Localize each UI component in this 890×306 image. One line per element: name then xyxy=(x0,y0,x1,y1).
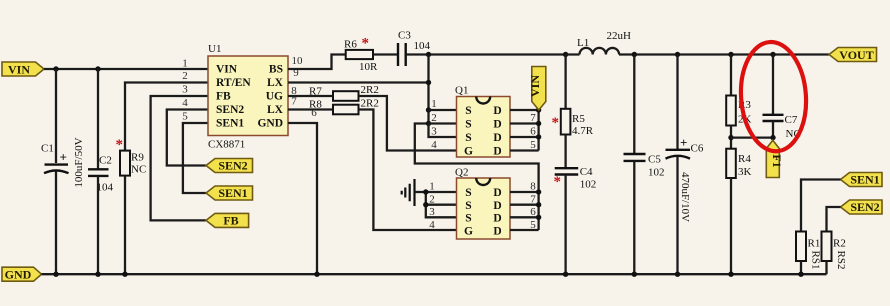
resistor R9 xyxy=(116,137,147,176)
svg-text:R1: R1 xyxy=(808,238,821,250)
node Q1 D pin8 xyxy=(536,107,541,112)
svg-text:5: 5 xyxy=(530,139,536,151)
power flag F1 xyxy=(766,140,784,177)
node VIN-C1 xyxy=(53,66,58,71)
wire Q1 pin3 stub xyxy=(429,124,457,138)
svg-text:C3: C3 xyxy=(398,30,411,42)
svg-text:C2: C2 xyxy=(99,155,112,167)
svg-text:SEN1: SEN1 xyxy=(218,186,247,200)
node R3-R4-C7 xyxy=(728,135,733,140)
svg-text:1: 1 xyxy=(429,181,435,193)
svg-text:D: D xyxy=(493,132,501,144)
svg-text:S: S xyxy=(465,132,471,144)
svg-text:LX: LX xyxy=(267,77,284,89)
svg-text:R2: R2 xyxy=(833,238,846,250)
wire LX node to R5 xyxy=(564,55,566,109)
wire U1 pin2 to R9 xyxy=(125,83,208,151)
wire R3 to R4 junction xyxy=(730,126,732,149)
wire R7 to Q1 gate xyxy=(359,96,457,151)
wire U1 pin9 LX xyxy=(288,81,429,83)
wire C1 top lead xyxy=(55,69,57,163)
svg-text:2R2: 2R2 xyxy=(361,98,379,110)
port SEN2 xyxy=(206,159,253,173)
capacitor C6 xyxy=(666,135,704,159)
svg-text:R6: R6 xyxy=(344,39,357,51)
svg-text:RT/EN: RT/EN xyxy=(216,77,251,89)
svg-text:SEN1: SEN1 xyxy=(216,118,244,130)
svg-text:D: D xyxy=(493,213,501,225)
svg-text:*: * xyxy=(362,36,370,52)
svg-text:SEN2: SEN2 xyxy=(216,104,244,116)
wire U1 pin7 to R8 xyxy=(288,108,333,110)
svg-text:R4: R4 xyxy=(738,153,751,165)
node VOUT-R3 xyxy=(728,52,733,57)
op-amp U1 CX8871 xyxy=(208,43,288,151)
wire C2 top lead xyxy=(97,69,99,169)
svg-text:VIN: VIN xyxy=(528,75,542,97)
svg-text:+: + xyxy=(60,150,67,165)
node VIN-C2 xyxy=(95,66,100,71)
node Q2 D pin7 xyxy=(536,202,541,207)
svg-text:CX8871: CX8871 xyxy=(208,139,245,151)
wire R1 bottom lead xyxy=(800,261,802,274)
port VOUT xyxy=(829,48,877,62)
resistor R2 xyxy=(822,232,848,270)
svg-text:3: 3 xyxy=(429,206,435,218)
svg-text:7: 7 xyxy=(291,96,297,108)
node VOUT-C6 xyxy=(675,52,680,57)
svg-text:U1: U1 xyxy=(208,43,221,55)
svg-text:6: 6 xyxy=(530,206,536,218)
wire C7 top lead xyxy=(772,55,774,115)
wire GND rail xyxy=(42,273,827,275)
wire ground to Q2 sources xyxy=(415,191,426,193)
svg-text:7: 7 xyxy=(530,112,536,124)
svg-text:5: 5 xyxy=(530,219,536,231)
wire Q1 pin1 stub xyxy=(429,109,457,111)
wire Q1 pin2 stub xyxy=(429,122,457,124)
svg-text:3K: 3K xyxy=(738,166,752,178)
svg-text:22uH: 22uH xyxy=(607,30,632,42)
wire U1 pin3 to FB flag xyxy=(151,96,208,220)
wire VOUT rail xyxy=(619,53,829,55)
node GND-U1pin6 xyxy=(314,272,319,277)
svg-text:3: 3 xyxy=(182,84,188,96)
svg-text:470uF/10V: 470uF/10V xyxy=(679,172,691,222)
node Q1 S pin1 xyxy=(426,107,431,112)
svg-text:GND: GND xyxy=(5,268,32,282)
node LX-L1-R5 xyxy=(563,52,568,57)
capacitor C4 xyxy=(554,166,597,191)
svg-text:G: G xyxy=(464,146,473,158)
svg-text:S: S xyxy=(465,200,471,212)
wire U1 pin8 to R7 xyxy=(288,95,333,97)
svg-text:NC: NC xyxy=(131,164,146,176)
svg-text:D: D xyxy=(493,146,501,158)
wire R3 top lead xyxy=(730,55,732,96)
svg-text:S: S xyxy=(465,105,471,117)
svg-text:4.7R: 4.7R xyxy=(572,125,594,137)
svg-text:G: G xyxy=(464,225,473,237)
svg-text:10R: 10R xyxy=(359,61,378,73)
svg-text:1: 1 xyxy=(182,58,188,70)
transistor Q2 xyxy=(455,167,510,240)
wire LX vertical bus xyxy=(427,55,429,124)
wire Q1 source bus jog to Q2 drain bus xyxy=(415,124,539,193)
wire SEN1 to R1 xyxy=(801,180,841,232)
node GND-C2 xyxy=(95,272,100,277)
wire Q2 source bus xyxy=(426,192,457,217)
svg-text:SEN2: SEN2 xyxy=(218,159,247,173)
svg-text:+: + xyxy=(680,135,687,150)
svg-text:Q1: Q1 xyxy=(455,85,468,97)
svg-text:UG: UG xyxy=(266,91,283,103)
wire R2 bottom lead xyxy=(825,261,827,274)
port VIN xyxy=(2,62,44,76)
svg-text:Q2: Q2 xyxy=(455,167,468,179)
capacitor C5 xyxy=(624,154,665,179)
svg-text:2R2: 2R2 xyxy=(361,84,379,96)
svg-text:D: D xyxy=(493,187,501,199)
svg-text:FB: FB xyxy=(223,214,238,228)
svg-text:4: 4 xyxy=(431,139,437,151)
resistor R3 xyxy=(726,96,751,126)
svg-text:6: 6 xyxy=(530,126,536,138)
wire C7 bottom lead xyxy=(772,121,774,138)
capacitor C3 xyxy=(398,30,431,67)
wire junction to C7 bottom xyxy=(731,136,773,138)
inductor L1 xyxy=(566,30,631,55)
ground symbol at Q2 xyxy=(402,179,415,206)
svg-text:4: 4 xyxy=(429,219,435,231)
node Q2 S pin2 xyxy=(423,202,428,207)
svg-text:RS1: RS1 xyxy=(810,251,822,270)
annotation red ellipse xyxy=(737,40,809,154)
svg-text:FB: FB xyxy=(216,91,231,103)
svg-text:*: * xyxy=(554,174,562,190)
svg-text:C4: C4 xyxy=(580,166,593,178)
node GND-R4 xyxy=(728,272,733,277)
svg-text:S: S xyxy=(465,119,471,131)
svg-text:D: D xyxy=(493,225,501,237)
wire C6 top lead xyxy=(676,55,678,150)
svg-text:5: 5 xyxy=(182,111,188,123)
svg-text:L1: L1 xyxy=(577,37,589,49)
node GND-R9 xyxy=(122,272,127,277)
wire U1 pin4 to SEN2 flag xyxy=(167,110,208,166)
svg-text:C5: C5 xyxy=(648,154,661,166)
svg-text:8: 8 xyxy=(530,181,536,193)
node GND-C1 xyxy=(53,272,58,277)
svg-text:S: S xyxy=(465,187,471,199)
resistor R1 xyxy=(796,232,822,270)
svg-text:2: 2 xyxy=(429,194,435,206)
wire VIN rail xyxy=(44,68,208,70)
port SEN2 right xyxy=(841,200,883,214)
node VOUT-C5 xyxy=(632,52,637,57)
svg-text:*: * xyxy=(552,115,560,131)
port SEN1 right xyxy=(841,173,883,187)
svg-text:2: 2 xyxy=(431,112,437,124)
capacitor C7 xyxy=(763,114,801,140)
svg-text:1: 1 xyxy=(431,98,437,110)
wire C5 bottom lead xyxy=(633,161,635,274)
svg-text:BS: BS xyxy=(269,64,283,76)
svg-text:3: 3 xyxy=(431,126,437,138)
svg-text:LX: LX xyxy=(267,104,284,116)
resistor R4 xyxy=(726,149,751,178)
wire U1 pin10 to R6 xyxy=(288,55,346,70)
svg-text:R9: R9 xyxy=(131,152,144,164)
node GND-R1 xyxy=(798,272,803,277)
svg-text:10: 10 xyxy=(292,55,304,67)
svg-text:VOUT: VOUT xyxy=(839,48,873,62)
wire R4 to GND rail xyxy=(730,178,732,274)
node GND-C4 xyxy=(563,272,568,277)
node GND-C5 xyxy=(632,272,637,277)
wire U1 pin5 to SEN1 flag xyxy=(183,123,208,193)
wire Q1 drain bus xyxy=(510,110,539,151)
wire R8 to Q2 gate xyxy=(359,110,457,231)
node Q2 S pin1 xyxy=(423,189,428,194)
svg-text:D: D xyxy=(493,105,501,117)
svg-text:C6: C6 xyxy=(691,143,704,155)
wire R9 bottom lead xyxy=(124,176,126,275)
svg-text:VIN: VIN xyxy=(216,64,238,76)
svg-text:SEN1: SEN1 xyxy=(850,173,879,187)
port SEN1 xyxy=(206,186,253,200)
node Q2 D pin6 xyxy=(536,215,541,220)
wire C5 top lead xyxy=(633,55,635,154)
wire R5 to C4 xyxy=(564,135,566,168)
node GND-C6 xyxy=(675,272,680,277)
node Q2 D pin8 xyxy=(536,189,541,194)
svg-text:GND: GND xyxy=(257,118,283,130)
svg-text:C7: C7 xyxy=(785,114,798,126)
svg-text:7: 7 xyxy=(530,194,536,206)
wire Q2 drain bus xyxy=(510,192,539,230)
node C7-F1 xyxy=(770,135,775,140)
svg-text:R5: R5 xyxy=(572,113,585,125)
svg-text:4: 4 xyxy=(182,97,188,109)
wire C6 bottom lead xyxy=(676,157,678,275)
node LX pin9 xyxy=(426,80,431,85)
node C3-LX xyxy=(426,52,431,57)
svg-text:D: D xyxy=(493,200,501,212)
wire SEN2 to R2 xyxy=(827,207,841,232)
svg-text:SEN2: SEN2 xyxy=(850,200,879,214)
capacitor C1 xyxy=(41,143,69,174)
svg-text:104: 104 xyxy=(414,40,431,52)
resistor R6 xyxy=(344,36,378,74)
port GND xyxy=(2,267,42,281)
resistor R7 xyxy=(309,84,379,101)
transistor Q1 xyxy=(455,85,510,158)
port FB xyxy=(206,213,249,227)
wire C1 bottom lead xyxy=(55,171,57,274)
wire U1 pin6 to GND rail xyxy=(288,123,317,274)
svg-text:100uF/50V: 100uF/50V xyxy=(73,137,85,187)
svg-text:102: 102 xyxy=(580,179,597,191)
svg-text:102: 102 xyxy=(648,167,665,179)
svg-text:*: * xyxy=(116,137,124,153)
svg-text:C1: C1 xyxy=(41,143,54,155)
svg-text:2: 2 xyxy=(182,70,188,82)
svg-text:VIN: VIN xyxy=(8,62,30,76)
svg-text:RS2: RS2 xyxy=(835,251,847,270)
resistor R8 xyxy=(309,98,379,115)
svg-text:F1: F1 xyxy=(770,154,784,167)
node Q1 D pin7 xyxy=(536,121,541,126)
power flag VIN vertical xyxy=(528,67,546,111)
wire C2 bottom lead xyxy=(97,176,99,274)
node Q1 S pin2 xyxy=(426,121,431,126)
wire R6 to C3 xyxy=(373,53,398,55)
resistor R5 xyxy=(552,109,594,137)
svg-text:S: S xyxy=(465,213,471,225)
node VOUT-C7 xyxy=(770,52,775,57)
wire C4 to GND rail xyxy=(564,175,566,275)
wire C3 to LX node xyxy=(406,53,566,55)
svg-text:D: D xyxy=(493,119,501,131)
capacitor C2 xyxy=(88,155,114,194)
node Q1 D pin6 xyxy=(536,134,541,139)
